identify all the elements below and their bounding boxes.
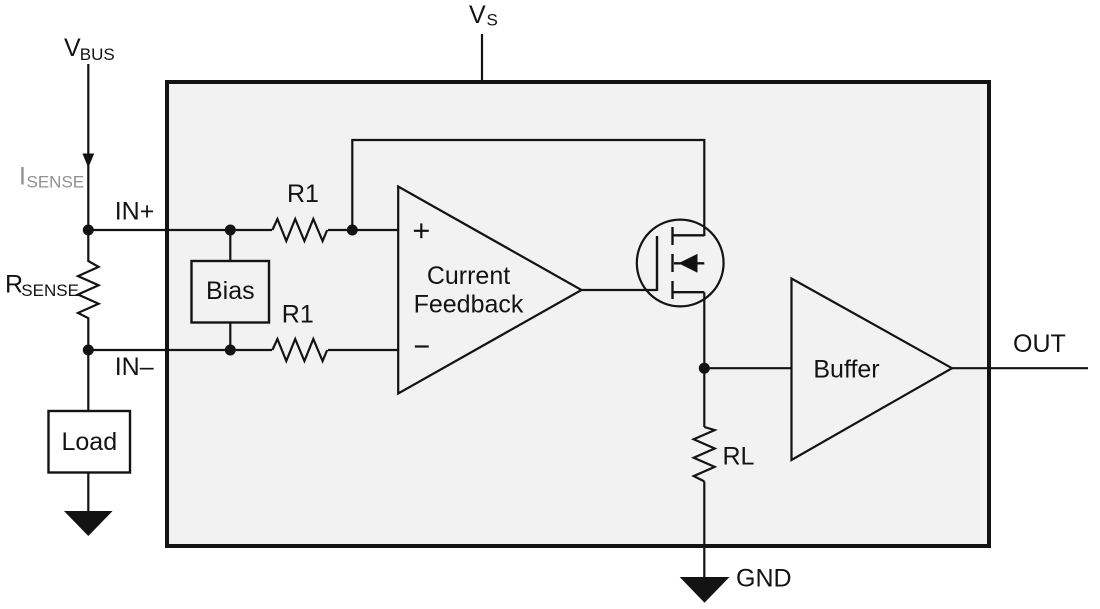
transistor channel dashes	[671, 227, 673, 245]
svg-text:Bias: Bias	[206, 277, 255, 305]
resistor R1 (bottom)	[272, 339, 327, 361]
wire MOSFET source down to output node	[703, 292, 705, 427]
svg-text:IN–: IN–	[115, 353, 154, 381]
node junction Bias top	[225, 225, 236, 236]
wire op-amp output to MOSFET gate	[582, 289, 658, 291]
transistor body bar with arrow	[674, 262, 704, 264]
block Bias	[192, 261, 270, 323]
svg-text:Feedback: Feedback	[414, 291, 524, 319]
op-amp U2 Buffer	[792, 279, 953, 461]
block Load	[49, 411, 131, 473]
wire output node to Buffer input	[704, 367, 791, 369]
wire Buffer output to OUT	[952, 367, 1088, 369]
ground (below Load)	[64, 511, 113, 536]
svg-text:S: S	[487, 11, 498, 30]
current direction arrowhead	[82, 154, 94, 168]
svg-text:OUT: OUT	[1013, 330, 1066, 358]
svg-text:Current: Current	[427, 262, 510, 290]
svg-text:SENSE: SENSE	[21, 281, 79, 300]
node junction feedback tap	[347, 225, 358, 236]
node junction Bias bottom	[225, 345, 236, 356]
node junction IN- at RSENSE bottom	[83, 345, 94, 356]
wire IN- node to Load	[87, 350, 89, 411]
transistor source bar	[673, 291, 705, 293]
svg-text:IN+: IN+	[115, 198, 155, 226]
wire feedback from IN+ node over to MOSFET drain	[352, 140, 704, 236]
resistor RL	[694, 427, 715, 481]
wire Vs stub	[481, 34, 483, 82]
svg-text:I: I	[19, 163, 26, 191]
wire IN+ rail	[88, 229, 272, 231]
transistor Q1 (NMOS) circle	[637, 220, 724, 307]
svg-text:SENSE: SENSE	[27, 173, 85, 192]
svg-text:V: V	[469, 1, 486, 29]
wire IN- rail	[88, 349, 272, 351]
svg-text:BUS: BUS	[80, 45, 115, 64]
ground GND symbol	[680, 577, 730, 603]
svg-text:Load: Load	[61, 428, 117, 456]
resistor R1 (top)	[272, 219, 327, 241]
svg-text:Buffer: Buffer	[813, 356, 879, 384]
svg-text:V: V	[64, 34, 81, 62]
transistor gate bar	[656, 236, 658, 291]
transistor drain bar	[673, 234, 705, 236]
resistor RSENSE	[78, 230, 99, 350]
svg-text:R1: R1	[282, 301, 314, 329]
node junction IN+ at RSENSE top	[83, 225, 94, 236]
wire VBUS down to IN+ node	[87, 64, 89, 230]
wire Bias bottom stub	[229, 322, 231, 350]
wire Bias top stub	[229, 230, 231, 261]
node junction output/RL	[699, 363, 710, 374]
IC block body	[167, 82, 989, 546]
op-amp U1 Current Feedback	[398, 187, 581, 394]
op-amp + input mark	[414, 230, 429, 232]
op-amp - input mark	[415, 345, 429, 347]
svg-text:GND: GND	[736, 565, 792, 593]
svg-text:RL: RL	[723, 443, 755, 471]
wire Load to ground	[87, 473, 89, 513]
svg-text:R1: R1	[287, 180, 319, 208]
wire RL to GND	[703, 481, 705, 578]
